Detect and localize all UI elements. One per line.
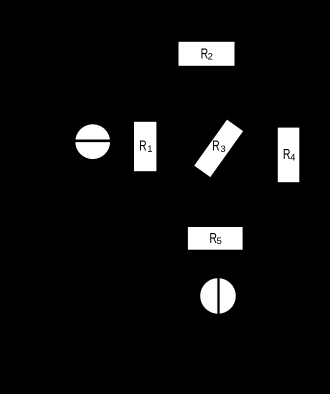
resistor R5 — [188, 227, 243, 250]
svg-text:1: 1 — [147, 144, 152, 155]
resistor R2 — [179, 42, 235, 66]
wire R3 diagonal stubs (node B to node M) — [145, 54, 288, 238]
voltage source U1 — [200, 277, 236, 315]
svg-text:2: 2 — [208, 51, 213, 62]
wire bottom rail — [93, 359, 219, 361]
svg-text:4: 4 — [290, 153, 295, 164]
wire R1 branch vertical — [144, 54, 146, 238]
svg-text:R: R — [139, 137, 147, 154]
wire middle rail (node M to node N) — [145, 237, 288, 239]
resistor R1 — [134, 122, 156, 171]
wire bottom source branch — [217, 250, 219, 360]
svg-text:3: 3 — [220, 144, 225, 155]
current source I1 — [75, 124, 112, 159]
resistor R4 — [278, 128, 300, 183]
wire left branch (node A down to bottom rail) — [92, 54, 94, 360]
wire right branch (node B down through R4) — [287, 54, 289, 238]
svg-text:R: R — [212, 136, 220, 153]
svg-text:5: 5 — [217, 236, 222, 247]
resistor R3 — [194, 120, 243, 177]
wire top rail node A to node B — [93, 53, 289, 55]
